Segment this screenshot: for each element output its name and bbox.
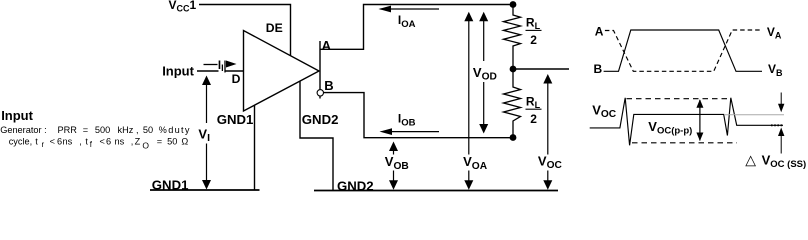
dVocss up arrowhead: [778, 128, 784, 137]
svg-text:A: A: [595, 25, 604, 39]
IOB arrowhead: [380, 128, 393, 135]
svg-text:GND2: GND2: [337, 178, 374, 193]
VOD down arrowhead: [479, 124, 488, 134]
node mid: [510, 66, 517, 73]
ground line 2: [314, 190, 558, 192]
Vcc1 wire: [199, 5, 291, 56]
svg-text:r: r: [42, 140, 45, 149]
inversion bubble: [317, 90, 323, 96]
VOC waveform: [590, 93, 784, 154]
current probe II bar: [224, 61, 226, 73]
dashed box top: [627, 98, 732, 100]
IOA arrowhead: [379, 6, 392, 13]
VOA down arrowhead: [464, 180, 473, 190]
GND2 pin wire: [300, 82, 333, 191]
svg-text:GND2: GND2: [302, 112, 339, 127]
VOD up arrowhead: [479, 12, 488, 21]
VOB up arrowhead: [389, 142, 398, 152]
svg-text:Generator :: Generator :: [0, 125, 46, 135]
VOC up arrowhead: [543, 74, 552, 84]
waveform A dashed trace: [605, 30, 762, 71]
VI down arrowhead: [202, 180, 211, 190]
dVocss down arrowhead: [778, 104, 784, 113]
VOB arrow: [393, 151, 395, 181]
wire A to top rail: [320, 5, 513, 50]
svg-text:50: 50: [143, 125, 153, 135]
svg-text:A: A: [322, 38, 332, 53]
IOB arrow line: [390, 131, 439, 133]
svg-text:GND1: GND1: [217, 112, 254, 127]
resistor RL/2 bottom: [504, 69, 521, 137]
VI arrow: [206, 85, 208, 180]
svg-text:t: t: [35, 137, 38, 147]
node B: [510, 134, 517, 141]
ground line 1: [150, 189, 260, 191]
svg-text:B: B: [324, 78, 333, 93]
svg-text:kHz: kHz: [118, 125, 134, 135]
svg-text:500: 500: [95, 125, 110, 135]
svg-text:D: D: [232, 72, 241, 86]
svg-text:2: 2: [530, 33, 537, 47]
II arrowhead: [226, 61, 237, 68]
waveform B solid trace: [604, 30, 762, 71]
svg-text:cycle,: cycle,: [9, 137, 33, 147]
svg-text:6: 6: [57, 137, 62, 147]
svg-text:ns: ns: [115, 137, 125, 147]
VOA up arrowhead: [464, 12, 473, 21]
RL/2 top fraction bar: [526, 29, 542, 31]
VOC arrow: [547, 84, 549, 181]
svg-text:t: t: [85, 137, 88, 147]
svg-text:DE: DE: [266, 21, 283, 35]
svg-text:O: O: [142, 141, 149, 151]
svg-text:GND1: GND1: [152, 177, 189, 192]
svg-text:<: <: [100, 137, 105, 147]
svg-text:%: %: [159, 125, 167, 135]
svg-text:2: 2: [530, 112, 537, 126]
RL/2 bottom fraction bar: [526, 108, 542, 110]
VOD arrow: [483, 21, 485, 125]
svg-text:,: ,: [136, 125, 139, 135]
op-amp driver triangle: [244, 31, 320, 112]
svg-text:duty: duty: [168, 125, 191, 135]
dVocss up arrow line: [780, 135, 782, 154]
svg-text:B: B: [594, 62, 603, 76]
current probe II line: [204, 64, 218, 66]
VI up arrowhead: [202, 76, 211, 86]
svg-text:<: <: [50, 137, 55, 147]
A output bar: [319, 41, 321, 99]
svg-text:,: ,: [79, 137, 82, 147]
VOA arrow: [468, 21, 470, 181]
VOC down arrowhead: [543, 180, 552, 190]
IOA arrow line: [389, 8, 439, 10]
settle line dotted end: [771, 124, 783, 126]
VOC trace: [590, 98, 783, 146]
svg-text:ns: ns: [63, 137, 73, 147]
svg-text:6: 6: [106, 137, 111, 147]
svg-text:Input: Input: [1, 108, 33, 123]
gray settle line: [724, 114, 784, 116]
svg-text:Input: Input: [162, 63, 194, 78]
waveform A/B section: [604, 30, 762, 71]
svg-text:=: =: [83, 125, 88, 135]
svg-text:Z: Z: [135, 137, 141, 147]
resistor RL/2 top: [504, 5, 521, 70]
svg-text:,: ,: [131, 137, 134, 147]
VOC p-p down arrowhead: [696, 133, 703, 142]
svg-text:Ω: Ω: [181, 137, 188, 147]
svg-text:=: =: [157, 137, 162, 147]
mid node wire: [513, 68, 569, 70]
svg-text:△: △: [745, 152, 756, 168]
wire B to bottom rail: [324, 93, 513, 138]
VOC p-p up arrowhead: [696, 99, 703, 108]
dVocss down arrow line: [780, 93, 782, 105]
VOC p-p arrow line: [699, 100, 701, 141]
svg-text:PRR: PRR: [58, 125, 78, 135]
GND1 pin wire: [254, 106, 256, 191]
VOB down arrowhead: [389, 180, 398, 190]
input wire: [197, 70, 244, 72]
svg-text:50: 50: [167, 137, 177, 147]
node A: [510, 1, 517, 8]
dashed box bottom: [632, 142, 737, 144]
